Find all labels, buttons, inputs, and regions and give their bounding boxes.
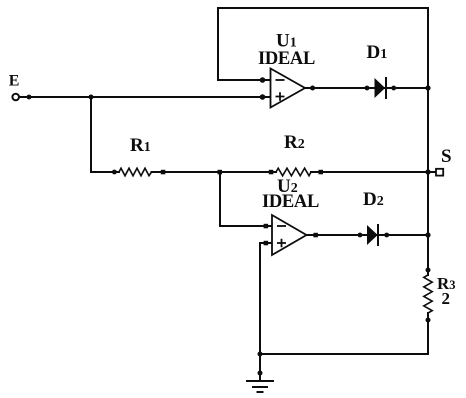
svg-text:S: S: [441, 146, 452, 167]
svg-text:IDEAL: IDEAL: [258, 49, 315, 69]
svg-text:IDEAL: IDEAL: [262, 192, 319, 212]
svg-text:2: 2: [442, 289, 451, 308]
svg-text:E: E: [9, 73, 20, 90]
